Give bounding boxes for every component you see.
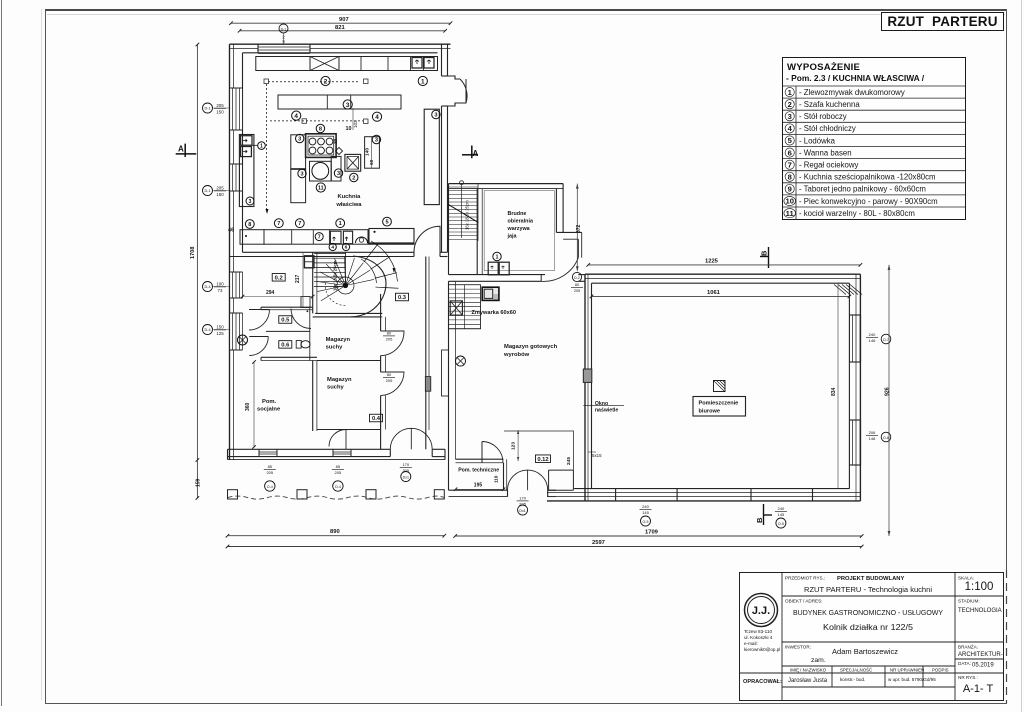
svg-text:D-6: D-6 — [883, 436, 889, 440]
svg-text:150: 150 — [216, 109, 224, 114]
svg-text:1: 1 — [260, 143, 263, 149]
svg-text:170: 170 — [519, 496, 526, 501]
svg-text:123: 123 — [511, 442, 517, 450]
svg-text:148: 148 — [869, 436, 876, 441]
svg-text:85: 85 — [336, 464, 341, 469]
svg-text:3: 3 — [249, 199, 252, 205]
svg-text:naświetle: naświetle — [595, 408, 618, 414]
svg-text:3: 3 — [346, 102, 350, 109]
svg-text:205: 205 — [386, 378, 393, 383]
svg-text:890: 890 — [330, 529, 340, 535]
svg-text:205: 205 — [335, 470, 342, 475]
svg-text:206: 206 — [869, 430, 876, 435]
svg-text:7: 7 — [277, 221, 280, 227]
svg-text:73: 73 — [218, 288, 223, 293]
svg-text:3: 3 — [300, 172, 303, 178]
svg-text:wyrobów: wyrobów — [503, 352, 530, 358]
svg-text:suchy: suchy — [327, 385, 345, 391]
svg-text:1: 1 — [421, 78, 425, 85]
svg-text:Magazyn: Magazyn — [326, 337, 351, 343]
svg-text:205: 205 — [266, 470, 273, 475]
svg-text:1: 1 — [496, 254, 499, 260]
svg-text:80: 80 — [575, 283, 579, 287]
svg-text:O-4: O-4 — [267, 485, 273, 489]
svg-text:245: 245 — [566, 457, 572, 465]
svg-text:biurowe: biurowe — [699, 409, 720, 415]
svg-text:125: 125 — [216, 331, 224, 336]
svg-text:0.6: 0.6 — [281, 342, 290, 348]
svg-text:103: 103 — [353, 120, 358, 128]
svg-text:3: 3 — [337, 171, 340, 177]
svg-text:B: B — [760, 250, 769, 256]
svg-text:Zmywarka 60x60: Zmywarka 60x60 — [472, 310, 516, 316]
svg-text:1061: 1061 — [707, 290, 721, 296]
svg-text:159: 159 — [196, 478, 202, 487]
svg-text:B: B — [755, 517, 764, 523]
svg-text:195: 195 — [474, 483, 483, 489]
svg-text:907: 907 — [339, 17, 349, 23]
svg-text:240: 240 — [642, 504, 649, 509]
svg-text:D-7: D-7 — [883, 338, 889, 342]
svg-text:6: 6 — [345, 245, 348, 251]
svg-text:3: 3 — [298, 137, 301, 143]
svg-text:Kuchnia: Kuchnia — [337, 194, 361, 200]
svg-text:Brudne: Brudne — [508, 211, 527, 217]
svg-text:834: 834 — [831, 387, 837, 396]
svg-text:0.12: 0.12 — [537, 457, 548, 463]
svg-text:926: 926 — [885, 387, 891, 396]
svg-text:8: 8 — [319, 127, 322, 133]
svg-text:jaja: jaja — [507, 234, 518, 240]
svg-text:5: 5 — [385, 220, 388, 226]
svg-text:110: 110 — [494, 475, 499, 483]
svg-text:372: 372 — [576, 224, 582, 233]
svg-text:145: 145 — [778, 512, 785, 517]
svg-text:16x 18,5x 25cm: 16x 18,5x 25cm — [333, 260, 338, 291]
svg-text:O-5: O-5 — [778, 522, 784, 526]
svg-text:Pomieszczenie: Pomieszczenie — [699, 401, 739, 407]
svg-text:205: 205 — [216, 103, 224, 108]
svg-text:warzywa: warzywa — [507, 226, 531, 232]
svg-text:Magazyn gotowych: Magazyn gotowych — [504, 344, 558, 350]
svg-text:9: 9 — [282, 39, 285, 44]
svg-text:1225: 1225 — [705, 259, 719, 265]
svg-text:D-2: D-2 — [574, 276, 580, 280]
svg-text:7: 7 — [298, 221, 301, 227]
svg-text:11: 11 — [318, 185, 324, 191]
svg-text:60: 60 — [369, 159, 375, 165]
svg-text:2597: 2597 — [592, 540, 605, 546]
svg-text:205: 205 — [574, 289, 580, 293]
svg-text:Dx1: Dx1 — [519, 509, 525, 513]
svg-text:socjalne: socjalne — [257, 407, 281, 413]
svg-text:294: 294 — [266, 290, 275, 296]
svg-text:0.2: 0.2 — [275, 275, 283, 281]
svg-text:A: A — [178, 145, 184, 154]
svg-text:2: 2 — [352, 176, 355, 182]
svg-text:205: 205 — [216, 186, 224, 191]
svg-text:85: 85 — [268, 464, 273, 469]
svg-text:Pom. techniczne: Pom. techniczne — [458, 468, 499, 474]
svg-text:205: 205 — [386, 337, 393, 342]
svg-text:0.4: 0.4 — [372, 416, 381, 422]
svg-text:0.5: 0.5 — [281, 318, 290, 324]
svg-text:4: 4 — [331, 245, 334, 251]
svg-text:150: 150 — [216, 192, 224, 197]
svg-text:140: 140 — [365, 148, 371, 156]
svg-text:8: 8 — [248, 222, 251, 228]
svg-text:właściwa: właściwa — [335, 202, 362, 208]
svg-text:D-1: D-1 — [281, 27, 287, 31]
svg-text:A: A — [473, 149, 479, 158]
svg-text:360: 360 — [245, 402, 251, 411]
svg-text:1708: 1708 — [190, 247, 196, 259]
svg-text:30: 30 — [333, 138, 339, 144]
svg-text:Pom.: Pom. — [262, 399, 277, 405]
svg-text:16x 18,5x 25cm: 16x 18,5x 25cm — [465, 200, 470, 230]
svg-text:100: 100 — [216, 282, 224, 287]
svg-text:170: 170 — [402, 462, 409, 467]
svg-text:Dx1: Dx1 — [403, 475, 409, 479]
svg-text:Magazyn: Magazyn — [327, 377, 352, 383]
svg-text:suchy: suchy — [326, 345, 344, 351]
svg-text:D-4: D-4 — [204, 328, 210, 332]
svg-text:D-1: D-1 — [204, 189, 210, 193]
svg-text:240: 240 — [869, 332, 876, 337]
svg-text:80: 80 — [387, 372, 392, 377]
svg-text:146: 146 — [869, 338, 876, 343]
svg-text:0.3: 0.3 — [398, 295, 407, 301]
svg-text:217: 217 — [295, 274, 301, 283]
svg-text:150: 150 — [216, 325, 224, 330]
svg-text:3: 3 — [434, 113, 437, 119]
svg-text:1: 1 — [339, 221, 342, 227]
svg-text:D-1: D-1 — [204, 107, 210, 111]
svg-text:D-4: D-4 — [204, 285, 210, 289]
svg-text:821: 821 — [335, 25, 345, 31]
svg-text:O-4: O-4 — [335, 485, 341, 489]
svg-text:3: 3 — [375, 138, 378, 144]
svg-text:5x15: 5x15 — [592, 453, 602, 458]
svg-text:1709: 1709 — [645, 530, 659, 536]
svg-text:10: 10 — [346, 126, 352, 132]
svg-text:145: 145 — [642, 510, 649, 515]
svg-text:O-5: O-5 — [643, 520, 649, 524]
svg-text:240: 240 — [778, 506, 785, 511]
svg-text:obieralnia: obieralnia — [508, 219, 534, 225]
svg-text:4: 4 — [294, 113, 298, 120]
svg-text:7: 7 — [318, 234, 321, 240]
svg-text:4: 4 — [375, 114, 379, 121]
